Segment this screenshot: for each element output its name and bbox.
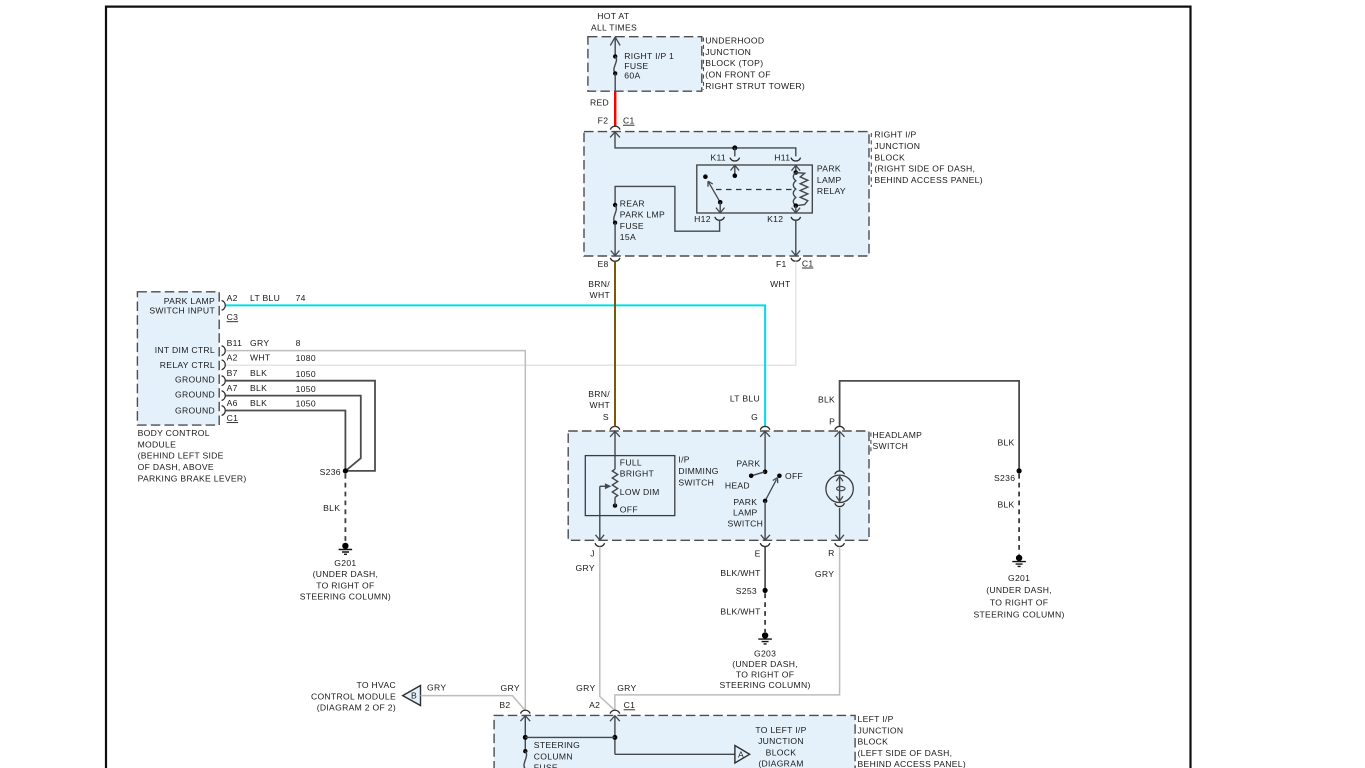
wire relay arm to H12 (719, 202, 721, 213)
svg-text:FUSE: FUSE (620, 221, 644, 231)
svg-text:JUNCTION: JUNCTION (858, 725, 904, 735)
svg-text:BLOCK: BLOCK (858, 737, 889, 747)
svg-text:TO RIGHT OF: TO RIGHT OF (736, 670, 794, 680)
svg-text:H12: H12 (694, 214, 711, 224)
wire GRY triangle B to B2 (421, 696, 525, 710)
wire G to park contact (764, 431, 766, 472)
svg-text:I/P: I/P (678, 455, 689, 465)
label I/P DIMMING SWITCH (678, 455, 718, 488)
wire B2 down (524, 716, 526, 752)
arrow down at J (596, 535, 605, 540)
connector arch G (760, 426, 770, 429)
wire lamp to R (839, 508, 841, 540)
svg-text:BLOCK: BLOCK (766, 747, 797, 757)
svg-text:BLK: BLK (818, 394, 835, 404)
relay switch arm (movable contact) (708, 181, 720, 202)
relay box (PARK LAMP RELAY) (697, 165, 813, 213)
svg-text:1050: 1050 (296, 369, 316, 379)
body control module box (137, 292, 219, 425)
arrow up at B2 entry (520, 716, 530, 722)
svg-text:TO LEFT I/P: TO LEFT I/P (755, 725, 806, 735)
wire connecting branches (525, 736, 615, 738)
label FULL BRIGHT (620, 458, 655, 479)
ground G201 (right) (973, 555, 1064, 620)
svg-text:GRY: GRY (501, 683, 520, 693)
wire H12 to rear park lamp fuse (615, 186, 720, 231)
svg-text:LOW DIM: LOW DIM (620, 487, 660, 497)
fuse STEERING COLUMN FUSE (523, 740, 580, 768)
svg-text:(UNDER DASH,: (UNDER DASH, (986, 585, 1052, 595)
svg-text:8: 8 (296, 338, 301, 348)
svg-text:1050: 1050 (296, 384, 316, 394)
svg-text:A: A (738, 750, 744, 760)
junction dot A2 branch (612, 735, 617, 740)
connector arch S (610, 426, 620, 429)
svg-text:TO RIGHT OF: TO RIGHT OF (990, 597, 1048, 607)
svg-text:BODY CONTROL: BODY CONTROL (138, 428, 210, 438)
wire GRY J to A2 (600, 547, 615, 710)
svg-text:K12: K12 (767, 214, 783, 224)
svg-text:GRY: GRY (617, 683, 636, 693)
svg-text:BLK/WHT: BLK/WHT (720, 568, 761, 578)
svg-text:BLK: BLK (250, 368, 267, 378)
wire WHT F1 to BCM relay ctrl (226, 261, 796, 365)
svg-text:RIGHT I/P: RIGHT I/P (874, 130, 916, 140)
svg-text:PARK: PARK (736, 458, 760, 468)
ground G201 (left) (300, 543, 391, 602)
svg-text:LAMP: LAMP (733, 508, 758, 518)
svg-text:C1: C1 (802, 258, 814, 268)
svg-text:FULL: FULL (620, 458, 642, 468)
arrow down at relay box bottom (H12) (716, 208, 725, 213)
svg-text:HOT AT: HOT AT (597, 11, 629, 21)
svg-text:A2: A2 (227, 293, 238, 303)
connector arch A2 (610, 710, 620, 713)
svg-text:BLK: BLK (997, 438, 1014, 448)
svg-text:(UNDER DASH,: (UNDER DASH, (313, 569, 379, 579)
wire BLK A6 to S236 (226, 411, 346, 471)
svg-text:BLOCK (TOP): BLOCK (TOP) (705, 58, 763, 68)
relay lower contact dot (718, 200, 723, 205)
svg-text:S: S (603, 412, 609, 422)
svg-text:MODULE: MODULE (138, 439, 177, 449)
underhood junction block box (588, 37, 702, 91)
label BODY CONTROL MODULE (138, 428, 247, 483)
off contact dot (777, 474, 782, 479)
svg-text:1050: 1050 (296, 399, 316, 409)
BCM internal labels (149, 296, 215, 415)
svg-text:GROUND: GROUND (175, 375, 215, 385)
left I/P junction block box (494, 715, 855, 768)
svg-text:LEFT I/P: LEFT I/P (858, 714, 894, 724)
pin A2 (park lamp switch input) (222, 293, 306, 310)
svg-text:B2: B2 (499, 700, 510, 710)
wire BLK/WHT E to S253 (764, 547, 766, 591)
svg-text:COLUMN: COLUMN (534, 751, 573, 761)
svg-text:F1: F1 (776, 259, 787, 269)
lamp socket cup (bottom) (835, 503, 845, 506)
head contact dot + link (749, 472, 765, 478)
label RIGHT I/P JUNCTION BLOCK (874, 130, 983, 186)
svg-text:GRY: GRY (576, 563, 595, 573)
pin R (828, 543, 844, 558)
wire A2 down (614, 716, 616, 755)
svg-text:C1: C1 (227, 413, 239, 423)
arrow down at R (835, 535, 844, 540)
relay coil (inductor + resistor in parallel) (792, 165, 808, 213)
wire P to lamp (839, 431, 841, 470)
svg-text:C3: C3 (227, 312, 239, 322)
svg-text:(UNDER DASH,: (UNDER DASH, (732, 659, 798, 669)
svg-text:B11: B11 (227, 338, 243, 348)
wire resistor to off dot (614, 497, 616, 505)
svg-text:PARK LAMP: PARK LAMP (164, 296, 215, 306)
arrow up at G entry (760, 431, 770, 437)
svg-text:G203: G203 (754, 649, 776, 659)
svg-text:G: G (751, 412, 758, 422)
resistor (dimmer rheostat) (612, 469, 617, 497)
svg-text:PARK: PARK (733, 497, 757, 507)
svg-text:P: P (829, 417, 835, 427)
wire (fuse output) (614, 73, 616, 91)
svg-text:UNDERHOOD: UNDERHOOD (705, 36, 764, 46)
wire wiper to J (599, 486, 601, 540)
connector cup H11 (791, 158, 801, 161)
svg-text:HEADLAMP: HEADLAMP (873, 430, 923, 440)
svg-text:HEAD: HEAD (725, 480, 750, 490)
svg-text:H11: H11 (774, 152, 790, 162)
svg-text:WHT: WHT (250, 352, 271, 362)
wire fuse to E8 (614, 223, 616, 256)
svg-text:SWITCH INPUT: SWITCH INPUT (149, 306, 215, 316)
park lamp switch common dot (763, 499, 768, 504)
svg-text:60A: 60A (624, 71, 640, 81)
label HEADLAMP SWITCH (873, 430, 923, 451)
svg-text:DIMMING: DIMMING (678, 466, 718, 476)
svg-text:R: R (828, 548, 835, 558)
svg-text:(BEHIND LEFT SIDE: (BEHIND LEFT SIDE (138, 451, 224, 461)
svg-text:(DIAGRAM: (DIAGRAM (758, 759, 803, 768)
svg-text:GRY: GRY (576, 683, 595, 693)
svg-text:CONTROL MODULE: CONTROL MODULE (311, 691, 396, 701)
wire C1 to H11/K11 (615, 132, 796, 157)
connector cup F1 (791, 258, 801, 261)
junction dot above K11 (732, 145, 737, 150)
pin J (590, 543, 604, 558)
wire LT BLU BCM to G (226, 305, 765, 426)
svg-text:ALL TIMES: ALL TIMES (591, 23, 637, 33)
headlamp switch box (568, 431, 869, 540)
wire S to dimmer resistor (614, 431, 616, 469)
value label BRN/WHT (lower) (588, 389, 610, 410)
off-page triangle B (403, 686, 421, 706)
svg-text:STEERING COLUMN): STEERING COLUMN) (719, 680, 810, 690)
svg-text:F2: F2 (598, 116, 609, 126)
svg-text:S253: S253 (736, 586, 757, 596)
svg-text:RIGHT STRUT TOWER): RIGHT STRUT TOWER) (705, 81, 805, 91)
svg-text:WHT: WHT (590, 290, 611, 300)
label PARK LAMP RELAY (817, 164, 846, 197)
svg-text:(DIAGRAM 2 OF 2): (DIAGRAM 2 OF 2) (317, 703, 396, 713)
svg-text:SWITCH: SWITCH (873, 441, 909, 451)
svg-text:(LEFT SIDE OF DASH,: (LEFT SIDE OF DASH, (858, 748, 953, 758)
value label BRN/WHT (upper) (588, 279, 610, 300)
svg-text:(RIGHT SIDE OF DASH,: (RIGHT SIDE OF DASH, (874, 164, 975, 174)
park contact dot (763, 470, 768, 475)
wire RED battery feed (614, 91, 616, 126)
svg-text:INT DIM CTRL: INT DIM CTRL (155, 345, 215, 355)
svg-text:TO RIGHT OF: TO RIGHT OF (316, 580, 374, 590)
svg-text:LT BLU: LT BLU (730, 394, 760, 404)
park lamp switch arm (765, 478, 778, 501)
svg-text:S236: S236 (994, 473, 1015, 483)
arrow up at S entry (610, 431, 620, 437)
svg-text:A7: A7 (227, 383, 238, 393)
dimmer wiper arrow (600, 483, 612, 489)
pin C1 (connector, underlined) (624, 700, 636, 710)
fuse REAR PARK LMP FUSE 15A (613, 199, 665, 242)
svg-text:J: J (590, 548, 595, 558)
connector cup H12 (715, 217, 725, 220)
connector C1 (underlined) (227, 413, 239, 423)
pin C1 (connector, underlined) (623, 116, 635, 126)
svg-text:C1: C1 (623, 116, 635, 126)
splice S236 (right) (994, 468, 1022, 483)
svg-text:BLK: BLK (250, 383, 267, 393)
pin E (755, 543, 770, 559)
arrow down at E8 (611, 251, 620, 256)
wire BRN/WHT E8 to S (614, 261, 616, 426)
connector cup K12 (791, 217, 801, 220)
svg-text:SWITCH: SWITCH (678, 477, 714, 487)
connector cup K11 (730, 158, 740, 161)
svg-text:BLK: BLK (997, 499, 1014, 509)
svg-text:LT BLU: LT BLU (250, 293, 280, 303)
svg-text:STEERING: STEERING (534, 740, 580, 750)
svg-text:TO HVAC: TO HVAC (356, 680, 396, 690)
svg-text:STEERING COLUMN): STEERING COLUMN) (300, 592, 391, 602)
svg-text:PARKING BRAKE LEVER): PARKING BRAKE LEVER) (138, 473, 247, 483)
svg-text:WHT: WHT (590, 400, 611, 410)
wire GRY B11 to B2 (226, 351, 526, 711)
wire BLK P to S236 right (840, 381, 1020, 471)
annotation separator headlamp switch (870, 433, 872, 453)
svg-text:G201: G201 (1008, 573, 1030, 583)
arrow down at E (761, 535, 770, 540)
svg-text:WHT: WHT (770, 279, 791, 289)
svg-text:OFF: OFF (620, 505, 638, 515)
illumination lamp (826, 475, 853, 502)
svg-text:G201: G201 (334, 558, 356, 568)
off-page triangle A (735, 746, 750, 764)
ground G203 (719, 632, 810, 690)
svg-text:OF DASH, ABOVE: OF DASH, ABOVE (138, 462, 214, 472)
label PARK LAMP SWITCH (727, 497, 763, 529)
svg-text:RIGHT I/P 1: RIGHT I/P 1 (624, 51, 674, 61)
relay fixed contact K11: arrow + dot (731, 165, 740, 178)
wire GRY R to A2 (615, 547, 840, 711)
svg-text:GRY: GRY (427, 683, 446, 693)
off contact dot dimmer (613, 503, 617, 507)
node HOT AT ALL TIMES (591, 11, 637, 32)
svg-text:FUSE: FUSE (624, 61, 648, 71)
connector arch P (835, 426, 845, 429)
annotation separator box1 (703, 38, 705, 91)
pin C1 (connector, underlined) bottom of right I/P JB (802, 258, 814, 268)
label UNDERHOOD JUNCTION BLOCK (705, 36, 805, 91)
label TO LEFT I/P JUNCTION BLOCK (755, 725, 806, 768)
connector arch C1 top of right I/P junction block (610, 126, 620, 129)
wire BLK dashed S236 to G201 (left) (344, 474, 346, 543)
svg-text:(ON FRONT OF: (ON FRONT OF (705, 70, 771, 80)
svg-text:JUNCTION: JUNCTION (758, 736, 804, 746)
splice S253 (736, 586, 768, 596)
svg-text:RELAY: RELAY (817, 186, 846, 196)
svg-text:PARK LMP: PARK LMP (620, 210, 665, 220)
splice S236 (left) (320, 467, 348, 477)
svg-text:B7: B7 (227, 368, 238, 378)
label LEFT I/P JUNCTION BLOCK (858, 714, 967, 768)
svg-text:BRIGHT: BRIGHT (620, 468, 655, 478)
svg-text:RED: RED (590, 98, 609, 108)
pin B7 (ground) (222, 368, 316, 385)
svg-text:BLK: BLK (250, 398, 267, 408)
svg-text:S236: S236 (320, 467, 341, 477)
arrow up at A2 entry (610, 716, 620, 722)
arrow up at P entry (835, 431, 845, 437)
svg-text:JUNCTION: JUNCTION (874, 141, 920, 151)
svg-text:BLK: BLK (323, 503, 340, 513)
svg-text:BRN/: BRN/ (588, 279, 610, 289)
svg-text:JUNCTION: JUNCTION (705, 47, 751, 57)
I/P dimming switch box (585, 456, 675, 516)
svg-text:STEERING COLUMN): STEERING COLUMN) (973, 610, 1064, 620)
svg-text:A6: A6 (227, 398, 238, 408)
svg-text:FUSE: FUSE (534, 763, 558, 768)
wire BLK B7 to S236 (226, 381, 375, 471)
annotation separator box2 (870, 133, 872, 187)
lamp socket arch (top) (835, 471, 845, 474)
wire (battery feed into fuse) (614, 37, 616, 56)
svg-text:E: E (755, 549, 761, 559)
svg-text:15A: 15A (620, 232, 636, 242)
svg-text:LAMP: LAMP (817, 175, 842, 185)
right I/P junction block box (584, 132, 869, 256)
svg-text:GROUND: GROUND (175, 405, 215, 415)
wire BLK dashed S236 to G201 (right) (1018, 474, 1020, 555)
svg-text:BRN/: BRN/ (588, 389, 610, 399)
pin A7 (ground) (222, 383, 316, 400)
svg-text:OFF: OFF (785, 471, 803, 481)
svg-text:RELAY CTRL: RELAY CTRL (160, 360, 215, 370)
svg-text:SWITCH: SWITCH (727, 519, 763, 529)
svg-text:B: B (411, 691, 417, 701)
svg-text:C1: C1 (624, 700, 636, 710)
svg-text:REAR: REAR (620, 199, 645, 209)
wire BLK A7 to S236 (226, 396, 361, 470)
wire BLK/WHT dashed S253 to G203 (764, 593, 766, 632)
connector arch B2 (521, 710, 531, 713)
svg-text:BEHIND ACCESS PANEL): BEHIND ACCESS PANEL) (874, 175, 983, 185)
wire K12 to F1 (795, 220, 797, 255)
label TO HVAC CONTROL MODULE (311, 680, 396, 713)
junction dot B2 branch (523, 735, 528, 740)
svg-text:E8: E8 (597, 259, 608, 269)
arrow up at box1 top (610, 37, 620, 46)
svg-text:BLK/WHT: BLK/WHT (720, 607, 761, 617)
svg-text:1080: 1080 (296, 353, 316, 363)
svg-text:PARK: PARK (817, 164, 841, 174)
svg-text:74: 74 (296, 293, 306, 303)
relay switch pivot contact (703, 174, 708, 179)
connector cup E8 (610, 258, 620, 261)
svg-text:GRY: GRY (815, 569, 834, 579)
connector C3 (underlined) (227, 312, 239, 322)
frame border (106, 7, 1191, 768)
wire junction to K11 (734, 148, 736, 157)
svg-text:A2: A2 (227, 352, 238, 362)
svg-text:BEHIND ACCESS PANEL): BEHIND ACCESS PANEL) (858, 759, 967, 768)
svg-text:K11: K11 (710, 152, 726, 162)
pin A6 (ground) (222, 398, 316, 415)
pin A2 (relay ctrl) (222, 352, 316, 369)
pin B11 (int dim ctrl) (222, 338, 301, 355)
wire A2 to triangle A (615, 753, 735, 755)
svg-text:GRY: GRY (250, 338, 269, 348)
arrow up at C1 entry (610, 132, 620, 138)
svg-text:A2: A2 (589, 700, 600, 710)
fuse RIGHT I/P 1 FUSE 60A (613, 51, 674, 81)
svg-text:BLOCK: BLOCK (874, 152, 905, 162)
dashed actuating link relay (716, 189, 792, 191)
wire common to E (764, 501, 766, 540)
svg-text:GROUND: GROUND (175, 390, 215, 400)
arrow down at F1 (792, 251, 801, 256)
